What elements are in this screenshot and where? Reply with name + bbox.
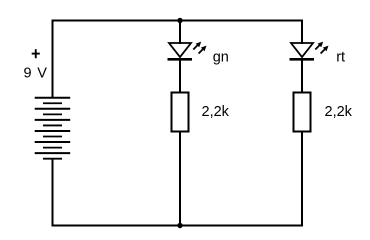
node bottom junction (green branch) [177,223,182,228]
svg-text:9 V: 9 V [24,65,48,81]
battery polarity label + [32,49,40,58]
wire left vertical (battery + terminal to top rail) [52,20,54,98]
wire R1 to bottom rail [179,131,181,226]
battery B1 (9 V, six cells) [35,98,70,159]
svg-text:gn: gn [213,49,229,65]
resistor R2 [294,93,311,132]
node top junction (green branch) [177,18,182,23]
wire R2 to bottom rail [301,131,303,227]
wire left vertical (battery - terminal to bottom rail) [52,159,54,227]
wire cathode of D2 to R2 [301,58,303,93]
svg-text:rt: rt [336,49,345,65]
LED D1 (green) [168,42,207,60]
wire anode lead of D2 [301,20,303,45]
wire anode lead of D1 [179,20,181,45]
wire cathode of D1 to R1 [179,58,181,93]
resistor R1 [172,93,189,132]
wire top rail [52,20,304,22]
LED D2 (red) [290,42,329,60]
wire bottom rail [52,225,304,227]
svg-text:2,2k: 2,2k [325,104,353,120]
svg-text:2,2k: 2,2k [202,104,230,120]
